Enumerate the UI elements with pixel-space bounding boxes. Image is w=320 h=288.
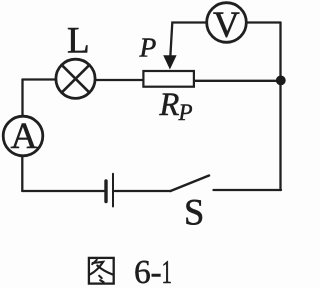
svg-text:L: L [67,21,90,62]
svg-text:-: - [151,254,162,288]
wire voltmeter left lead [170,23,207,58]
battery cell plates [104,181,107,202]
wire rheostat right to junction [195,80,281,82]
wire bottom left [22,190,104,192]
svg-text:A: A [11,116,38,157]
wire lamp to rheostat [95,79,142,81]
svg-text:R: R [159,87,180,123]
svg-text:6: 6 [134,254,151,288]
svg-text:S: S [184,192,204,233]
wire top-left horizontal [23,78,56,80]
lamp L cross [62,65,90,93]
svg-text:V: V [213,5,240,46]
switch right contact wire [214,189,282,191]
wire left vertical upper [21,80,23,117]
switch S blade [171,176,210,192]
ammeter A circle [3,116,43,156]
svg-text:1: 1 [162,254,173,288]
wire left vertical lower [21,156,23,191]
wire battery to switch [115,190,171,192]
svg-text:P: P [139,32,157,63]
rheostat slider arrow [163,55,176,69]
svg-text:P: P [178,100,193,125]
wire voltmeter right lead [246,21,280,23]
lamp L circle [56,59,95,98]
voltmeter V circle [207,3,247,43]
wire right vertical [279,23,281,191]
node junction dot [276,76,286,86]
rheostat RP body [143,71,194,87]
caption: hanzi TU (drawn) [89,258,114,284]
